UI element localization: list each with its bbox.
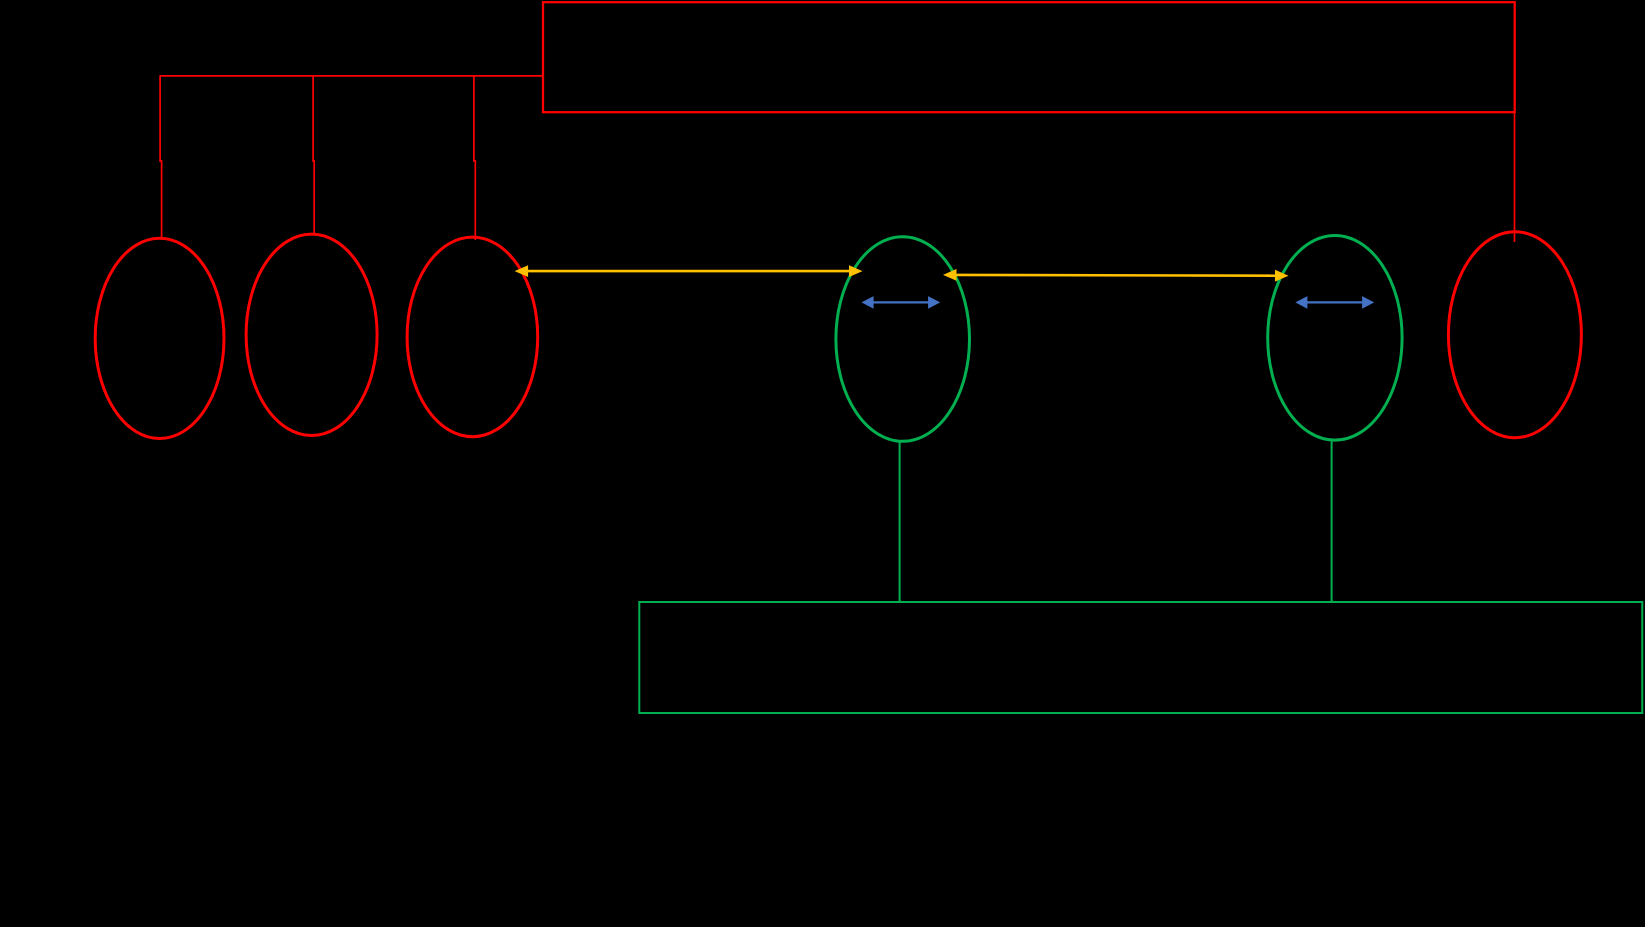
wire: green vertical connector from green ellipse 2 to green rectangle [1331, 440, 1333, 602]
blue double arrow 1 (inside green ellipse 1) [862, 296, 941, 309]
red rectangle (top header box) [543, 2, 1515, 112]
green rectangle (bottom box) [639, 602, 1642, 713]
red ellipse 1 [95, 238, 224, 438]
red ellipse 4 (far right) [1448, 232, 1581, 438]
wire: red vertical connector from header box to right ellipse [1514, 112, 1516, 242]
red ellipse 3 [407, 237, 538, 437]
green ellipse 1 [836, 237, 970, 442]
wire: green vertical connector from green ellipse 1 to green rectangle [899, 441, 901, 602]
wire: red horizontal connector from header box to drop lines [160, 75, 544, 77]
green ellipse 2 [1268, 235, 1402, 440]
yellow double arrow 1 (red ellipse 3 to green ellipse 1) [515, 265, 863, 277]
red ellipse 2 [246, 234, 377, 435]
wire: red vertical drop 1 [160, 76, 162, 238]
yellow double arrow 2 (green ellipse 1 to green ellipse 2) [943, 269, 1289, 282]
wire: red vertical drop 3 [474, 76, 475, 240]
blue double arrow 2 (inside green ellipse 2) [1295, 296, 1374, 309]
wire: red vertical drop 2 [313, 76, 314, 235]
